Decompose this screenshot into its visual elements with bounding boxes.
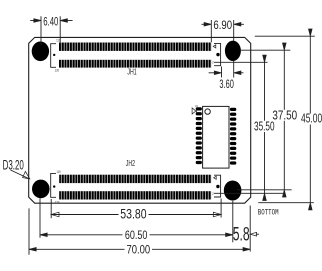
hole diameter D3.20 leader line with arrowhead — [11, 170, 29, 179]
dimension 6.40 left extension line — [40, 16, 42, 45]
svg-text:37.50: 37.50 — [272, 109, 297, 123]
dimension 37.50 line upper segment with up arrow — [283, 50, 285, 110]
IC U1 pin-1 circle marker — [205, 109, 210, 114]
connector JH1 bottom pad row — [59, 60, 211, 68]
dimension 3.60 left extension line — [221, 67, 223, 78]
svg-text:JH2: JH2 — [126, 160, 136, 168]
dimension 60.50 line left segment with arrow — [40, 234, 123, 236]
connector JH2 left bracket — [51, 173, 56, 197]
dimension 3.60 right arrow and tail — [240, 72, 244, 74]
dimension 35.50 line lower segment with down arrow — [264, 132, 266, 193]
connector JH1 right bracket — [214, 43, 221, 65]
svg-text:45.00: 45.00 — [301, 112, 322, 126]
connector JH1 pin 1 marker — [213, 45, 216, 48]
connector JH2 right bracket — [214, 175, 221, 197]
IC U1 pin-1 triangle marker — [192, 108, 196, 114]
dimension 70.00 line right segment with arrow — [152, 248, 250, 250]
svg-text:BOTTOM: BOTTOM — [258, 209, 279, 218]
dimension 60.50 left extension line — [39, 198, 41, 237]
IC U1 left pad column — [196, 107, 202, 164]
dimension 37.50 line lower segment with down arrow — [283, 121, 285, 190]
svg-text:35.50: 35.50 — [254, 120, 274, 134]
dimension 35.50 top extension line — [214, 61, 268, 63]
dimension 6.40 left arrow and tail — [30, 20, 35, 22]
connector JH2 pin 1 marker — [214, 176, 217, 179]
svg-text:53.80: 53.80 — [120, 206, 147, 222]
connector JH1 left bracket — [51, 44, 56, 68]
connector JH2 right polarity dot — [216, 185, 219, 188]
dimension 3.60 right extension line — [233, 61, 235, 78]
mounting hole bottom-right — [224, 181, 242, 201]
dimension 60.50 right extension line — [232, 201, 234, 243]
dimension 70.00 line left segment with arrow — [29, 248, 125, 250]
dimension 37.50 top extension line — [241, 49, 290, 51]
connector JH2 left polarity dot — [53, 185, 55, 187]
svg-text:70.00: 70.00 — [126, 244, 150, 257]
connector JH2 top pad row — [59, 175, 211, 183]
svg-text:JH1: JH1 — [127, 69, 137, 77]
connector JH1 top pad row — [59, 43, 211, 51]
svg-text:60.50: 60.50 — [125, 229, 148, 243]
dimension 35.50 bottom extension line — [214, 192, 283, 194]
dimension 35.50 line upper segment with up arrow — [264, 62, 266, 121]
connector JH1 right polarity dot — [216, 53, 219, 56]
svg-text:U1: U1 — [195, 104, 198, 108]
dimension 45.00 top extension line — [255, 35, 315, 37]
dimension 60.50 line right segment with arrow — [150, 234, 233, 236]
dimension 6.90 right extension line — [233, 20, 235, 41]
dimension 70.00 left extension line — [28, 208, 30, 254]
dimension 6.90 right arrow and tail — [240, 23, 244, 25]
dimension 53.80 line left segment with open arrow — [51, 214, 118, 216]
mounting hole bottom-left — [32, 180, 50, 199]
dimension 5.8 right extension line — [249, 206, 251, 252]
dimension 6.90 left extension line — [210, 20, 212, 42]
mounting hole top-right — [225, 41, 241, 61]
svg-text:6.90: 6.90 — [213, 19, 232, 32]
dimension 53.80 line right segment with open arrow — [149, 214, 222, 216]
svg-text:119: 119 — [57, 169, 61, 174]
dimension 6.40 right arrow and tail — [66, 20, 72, 22]
connector JH2 bottom pad row — [59, 191, 211, 199]
dimension 6.40 right extension line — [59, 16, 61, 42]
dimension 53.80 right extension line — [220, 199, 222, 218]
dimension 37.50 bottom extension line — [237, 189, 292, 191]
svg-text:3.60: 3.60 — [219, 79, 234, 92]
dimension 6.90 left arrow and tail — [202, 23, 206, 25]
mounting hole top-left — [32, 42, 49, 62]
IC U1 body outline — [203, 106, 229, 168]
dimension 53.80 left extension line — [50, 199, 52, 218]
dimension 45.00 bottom extension line — [258, 202, 314, 204]
svg-text:120: 120 — [55, 200, 60, 205]
dimension 45.00 line lower segment with down arrow — [309, 125, 311, 203]
dimension 5.8 outside arrow and tail — [256, 233, 259, 235]
dimension 45.00 line upper segment with up arrow — [309, 36, 311, 113]
svg-text:6.40: 6.40 — [43, 16, 58, 29]
dimension 3.60 left arrow and tail — [209, 72, 215, 74]
board outline (70.00 x 45.00 PCB, chamfered corners) — [29, 37, 251, 203]
svg-text:120: 120 — [55, 68, 60, 73]
svg-text:5.8: 5.8 — [233, 225, 250, 245]
IC U1 right pad column — [230, 108, 236, 165]
connector JH1 left polarity dot — [53, 54, 55, 56]
